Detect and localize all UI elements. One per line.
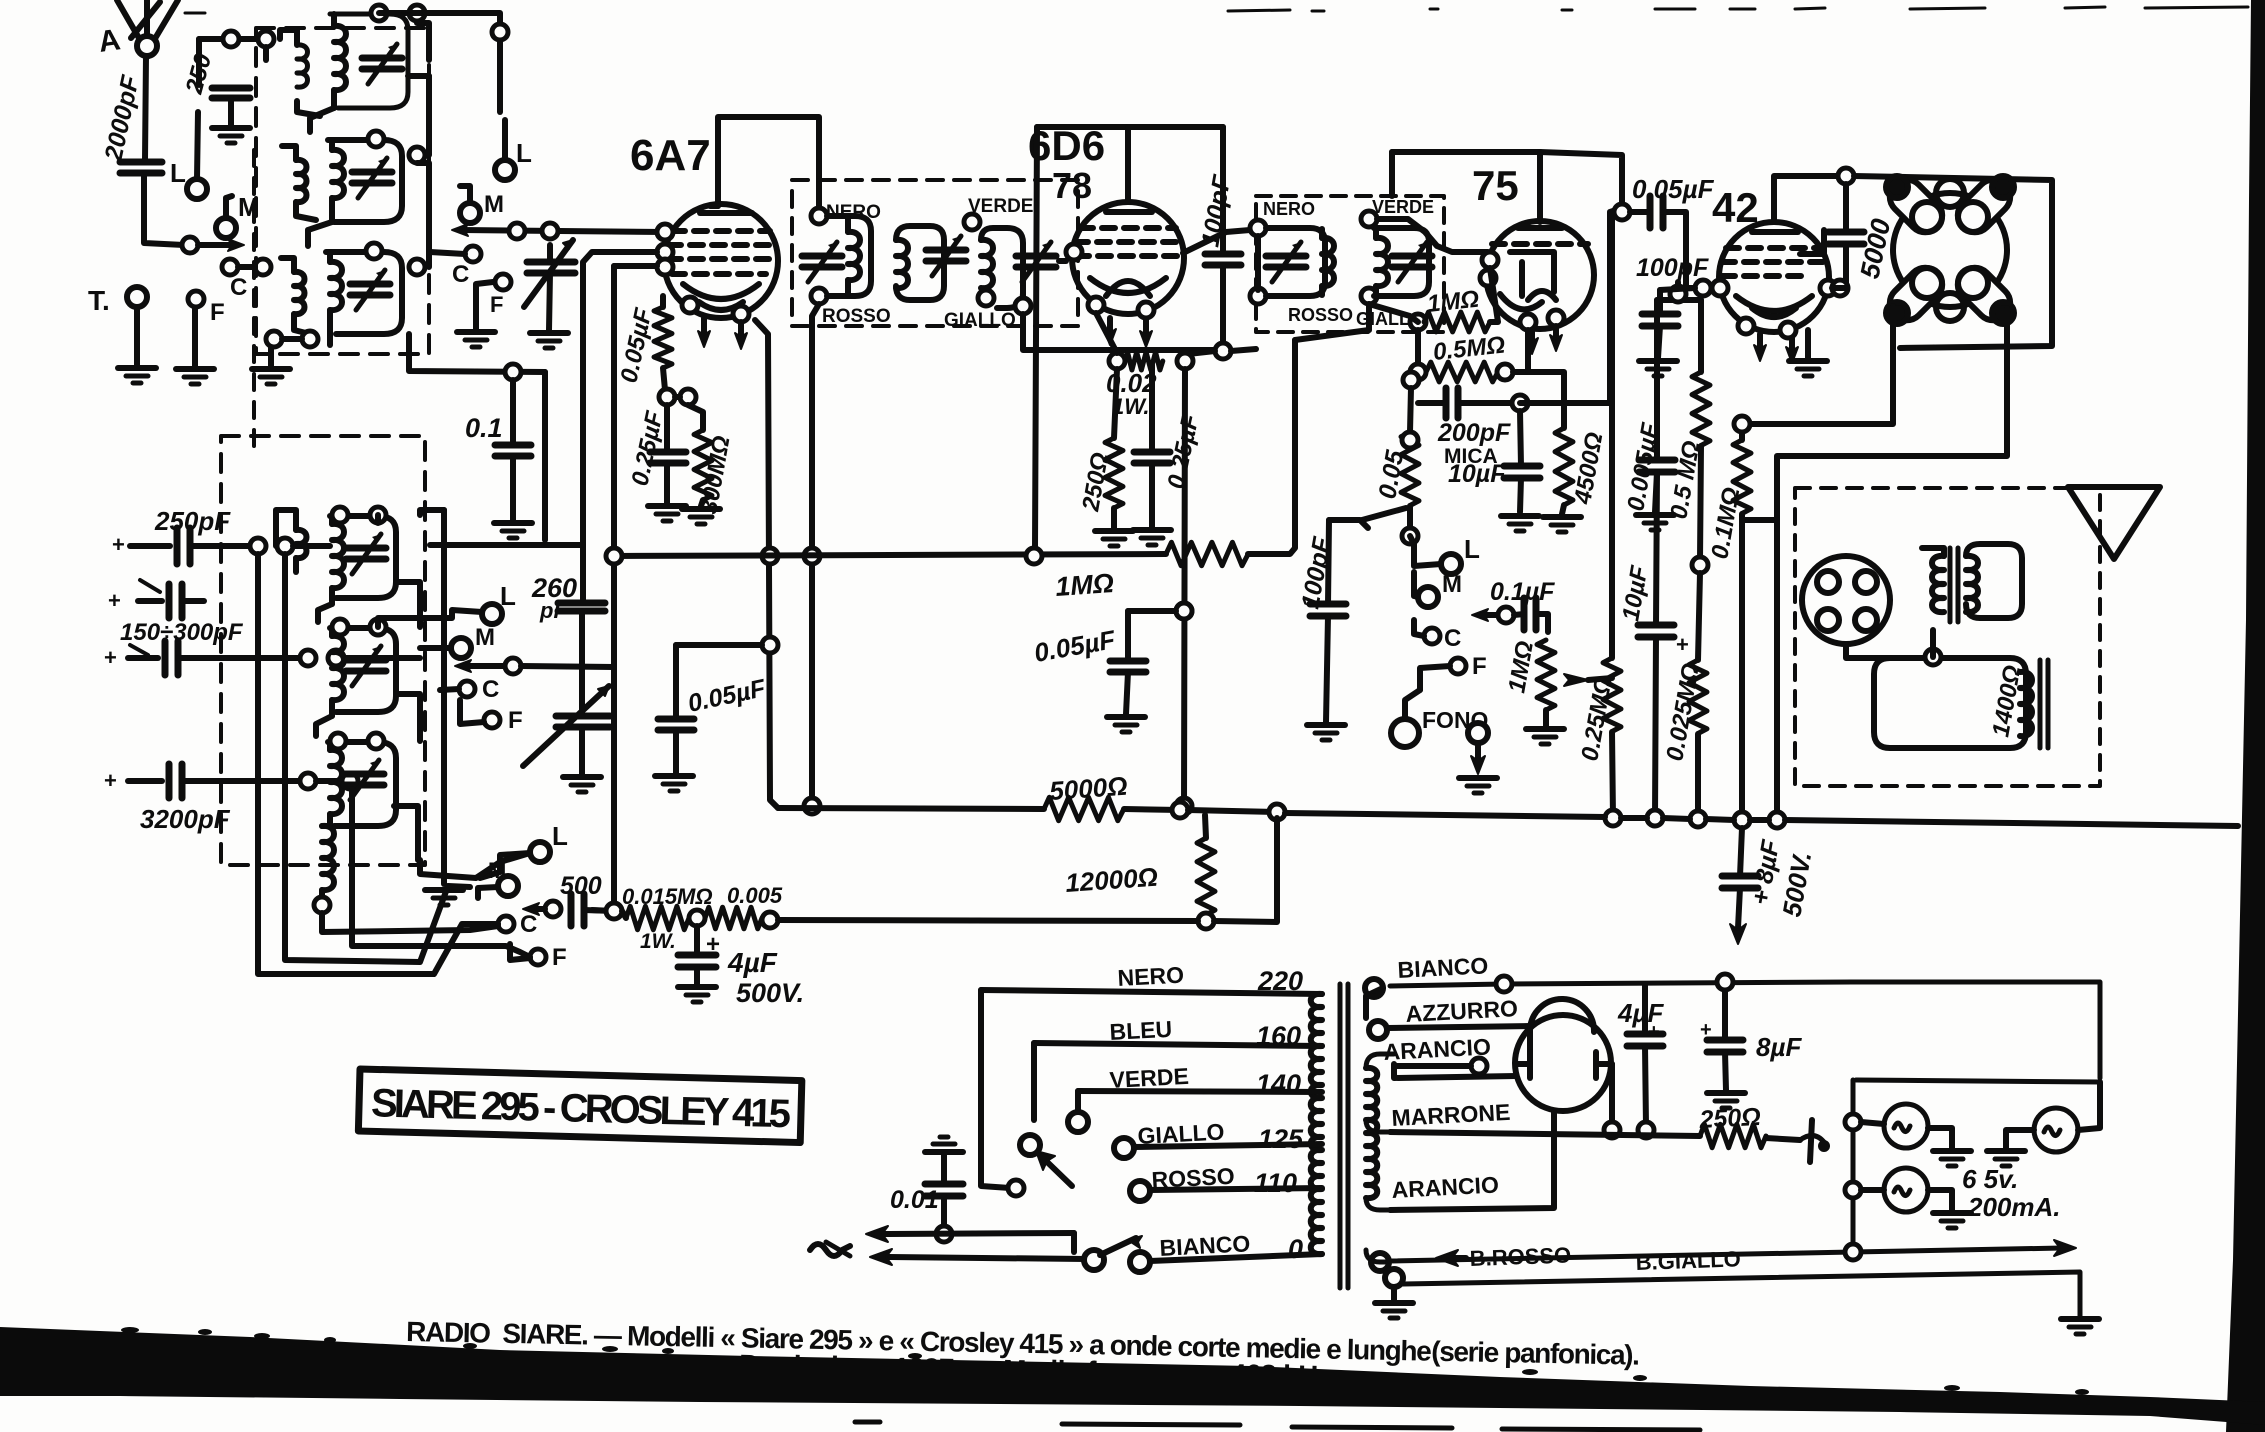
svg-text:B.ROSSO: B.ROSSO [1469,1242,1571,1271]
node [300,650,316,666]
secondary ground [1385,1269,1403,1287]
svg-text:ROSSO: ROSSO [1288,305,1353,325]
svg-text:F: F [490,292,503,317]
svg-text:L: L [516,138,532,168]
wire 42 top rail [1774,176,1846,222]
resistor 300MOhm with ground [688,405,703,430]
svg-text:C: C [1444,625,1461,652]
terminal F det [1450,658,1466,674]
ground [1501,516,1539,531]
ground [118,368,156,383]
node [1832,280,1848,296]
resistor 0.25MOhm column [1609,212,1615,658]
terminal F (right group) with ground [495,274,511,290]
terminal M (right group) [460,203,480,223]
svg-text:150÷300pF: 150÷300pF [120,619,244,646]
wire verde-giallo to 1M junction [1369,304,1418,322]
node pair below 6A7 [659,389,675,405]
wire 200pF node to 42 grid via 0.05 [1520,208,1622,403]
ground feed below box1 [268,347,274,366]
node [657,259,673,275]
svg-text:1W.: 1W. [640,930,676,953]
lamp 1 [1845,1114,1861,1130]
lobe SW [1883,261,1949,327]
node [1925,649,1941,665]
ground [678,987,716,1002]
svg-text:L: L [500,581,516,611]
ground [252,369,290,384]
node [1638,1122,1654,1138]
ground [682,509,720,524]
resistor 12000 Ohm [1197,838,1215,915]
node [1695,280,1711,296]
svg-text:L: L [552,821,568,851]
node [370,619,386,635]
capacitor 4uF 500V with ground [694,926,700,955]
ground [1107,717,1145,732]
svg-text:+: + [108,588,121,613]
terminal [1084,1250,1104,1270]
grid wire with left arrow into 6A7 [452,224,468,236]
wire to group 3 [308,222,332,246]
terminal FONO with label [1391,719,1419,747]
ground [1133,530,1171,545]
trimmer capacitor IF1 coupling [926,236,966,276]
wire top to box [199,36,258,42]
ground [530,333,568,348]
node [1769,812,1785,828]
wire IF2 giallo to AVC drop [1295,304,1369,340]
arrow left wire [455,660,471,672]
node [1512,395,1528,411]
terminal M [216,218,236,238]
primary winding [1311,994,1322,1254]
terminal [1114,1138,1134,1158]
wire M up [226,196,232,218]
svg-text:8µF: 8µF [1756,1032,1802,1062]
scan artifact: broken line below band [855,1422,1700,1430]
B+ rail with resistor 5000 Ohm [778,808,1044,809]
node [328,650,344,666]
svg-text:10µF: 10µF [1448,460,1506,488]
wire 6D6 top rail [1037,127,1128,202]
svg-text:6A7: 6A7 [630,131,711,180]
node [542,223,558,239]
ground [1789,361,1827,376]
wire 6D6 plate to IF2 [1183,230,1250,253]
node [680,389,696,405]
terminal [1068,1112,1088,1132]
mains wire 1 with arrow [936,1226,952,1242]
svg-text:1MΩ: 1MΩ [1426,286,1481,318]
ground [1526,729,1564,744]
antenna coil group 1 [330,5,425,108]
svg-text:F: F [552,944,567,971]
wire 6A7 top rail [718,117,819,208]
node [370,507,386,523]
lobe NW [1883,173,1949,239]
variable capacitor osc with ground [556,716,610,727]
oscillator coil group 2 [330,619,396,716]
resistor 0.5MOhm column [1698,300,1704,372]
terminal A [137,36,157,56]
long vertical right of box1 [497,26,503,112]
oscillator coil group 3 [328,733,396,826]
svg-text:1MΩ: 1MΩ [1054,568,1115,602]
wire [316,716,332,736]
node [606,548,622,564]
ground [1933,1213,1971,1228]
wire group1 to group2 [310,108,334,132]
node [682,297,698,313]
lobe NE [1951,173,2017,239]
node [266,331,282,347]
capacitor 0.05uF coupling [1630,209,1650,215]
node [1066,244,1082,260]
node [342,773,358,789]
node [1402,432,1418,448]
terminal L det [1441,554,1461,574]
svg-text:6 5v.: 6 5v. [1962,1164,2018,1194]
tube 6A7 [657,204,778,349]
capacitor 260pF column [580,545,586,603]
wire rectifier output to MARRONE [1609,1064,1615,1126]
wire [144,173,184,245]
wire 0.05 to 100pF junction [1362,508,1406,520]
long wires from coil box bottom to lower terminals [322,913,498,932]
node [689,910,705,926]
svg-text:T.: T. [88,285,110,316]
node [332,619,348,635]
svg-text:GIALLO: GIALLO [944,310,1016,331]
capacitor 0.25uF with ground [664,405,670,452]
wire grid3 column [614,263,657,269]
node [409,147,425,163]
bottom junctions of box1 [302,331,318,347]
resistor 0.005 [705,907,762,929]
svg-text:NERO: NERO [1263,199,1315,219]
wire IF1 rosso down [812,304,819,806]
capacitor 2000pF [120,162,162,173]
terminal M det [1418,587,1438,607]
ground [1543,517,1581,532]
capacitor 250 with ground [196,39,202,85]
node [314,897,330,913]
node [1845,1244,1861,1260]
lamp 2 [2034,1108,2078,1152]
primary coil 3 [281,258,310,334]
screen feed vertical [1184,369,1185,806]
wire top of 0.5M and 0.005 columns [1657,297,1701,303]
terminal [498,876,518,896]
node [1172,802,1188,818]
node [1520,314,1536,330]
terminal [1130,1252,1150,1272]
cathode drop wire V1 [755,320,778,808]
svg-text:B.GIALLO: B.GIALLO [1635,1246,1741,1275]
node [505,658,521,674]
bottom rail [592,910,614,911]
right side verticals of box1 [426,76,432,155]
node right top [492,24,508,40]
terminal C osc [459,681,475,697]
ground [212,128,250,143]
node [1269,804,1285,820]
node [1471,1058,1487,1074]
wire 75 top rail [1392,149,1540,155]
terminal L osc [482,604,502,624]
svg-text:C: C [230,274,247,301]
node [1015,298,1031,314]
capacitor 200pF MICA [1418,400,1446,406]
wire group1-group2 [318,604,332,622]
IF1 primary coil [811,208,827,224]
resistor 0.02 1W cathode [1109,353,1125,369]
svg-text:NERO: NERO [826,202,881,223]
long AVC vertical [1035,127,1037,548]
svg-text:M: M [1442,571,1462,598]
node [1177,353,1193,369]
resistor 4500 Ohm with ground [1528,372,1564,428]
node [505,364,521,380]
field connector symbol [1810,1120,1812,1162]
wire arrow right [198,242,236,248]
ground [1307,725,1345,740]
node [223,31,239,47]
ground [1987,1151,2025,1166]
node [733,306,749,322]
node [1734,416,1750,432]
node [657,244,673,260]
svg-text:A: A [96,23,122,59]
svg-text:0.005: 0.005 [727,883,783,908]
terminal L (right group) [495,160,515,180]
svg-text:0.1: 0.1 [465,413,503,443]
svg-text:0.015MΩ: 0.015MΩ [622,884,713,909]
capacitor 0.25uF with ground [1149,364,1155,452]
node [1605,810,1621,826]
left dashed vertical inner [252,150,256,452]
wire IF2 nero down (from 6D6 plate) [1255,236,1261,290]
center vertical ground line [420,510,444,515]
node [182,237,198,253]
ground [655,776,693,791]
node [250,538,266,554]
resistor 0.1MOhm column [1739,428,1745,440]
ground [563,777,601,792]
voice coil 1400 Ohm [1874,658,2048,748]
node [409,5,425,21]
svg-text:C: C [452,261,469,288]
svg-text:F: F [508,707,523,734]
node [804,798,820,814]
capacitor 0.1 column [409,334,545,372]
node [277,538,293,554]
svg-text:500V.: 500V. [736,978,804,1008]
node [258,31,274,47]
node [509,223,525,239]
node [1497,364,1513,380]
node [1604,1122,1620,1138]
wire IF1 to 6D6 grid [1059,258,1066,264]
ground [1933,1151,1971,1166]
dashed box IF1 [792,180,1078,326]
node [300,773,316,789]
scan artifact: band edge speckles [121,1327,2089,1395]
svg-text:75: 75 [1472,162,1519,209]
feedback coil small [296,530,307,558]
svg-text:BIANCO: BIANCO [1397,952,1489,983]
wire IF2 verde to 75 grid [1377,219,1488,252]
wire IF1 giallo down [1023,314,1215,350]
svg-text:ROSSO: ROSSO [822,306,891,327]
ground [457,332,495,347]
node [498,916,514,932]
node [657,224,673,240]
primary coil 1 [280,30,320,116]
capacitor 0.05uF mid with ground [1176,603,1192,619]
scan artifact: top edge dashed speckle [185,7,2248,13]
ground [1095,531,1133,546]
second fono terminal with ground arrow [1468,723,1488,743]
rectifier tube [1515,999,1612,1111]
node [530,949,546,965]
svg-text:0: 0 [1288,1234,1303,1264]
capacitor 5000 tone with label [1838,168,1854,184]
node [1498,607,1514,623]
node [368,733,384,749]
wires from coil box right to L/M terminals at right [379,13,500,26]
lower terminal group LMCF [530,842,550,862]
node [371,5,387,21]
variable capacitor 6A7 grid [524,240,575,348]
node [1176,603,1192,619]
svg-text:L: L [170,158,186,188]
dashed box IF2 [1256,196,1444,332]
node [1088,297,1104,313]
AVC rail with resistor 1MOhm [614,554,1166,556]
node [1361,288,1377,304]
node [1008,1180,1024,1196]
svg-text:0.05µF: 0.05µF [1632,174,1715,204]
pins with arrows [701,318,707,338]
scan artifact: bottom black smear band [0,1327,2265,1425]
antenna coil group 3 [326,243,425,334]
node [1138,302,1154,318]
IF1 secondary coil [964,214,980,230]
wire mains left branch [981,990,1010,1188]
heater return wire [1403,1272,2080,1316]
wire 500 cap row [545,901,561,917]
speaker socket 4 pin [1802,556,1890,644]
wire B.ROSSO B.GIALLO [1366,1250,1386,1262]
tube 6D6 [1066,202,1184,347]
mains squiggle symbol [810,1244,850,1256]
dashed box oscillator coils [221,436,425,865]
node [978,290,994,306]
svg-text:L: L [1464,534,1480,564]
node [1614,204,1630,220]
svg-text:+: + [104,645,117,670]
terminal C det [1424,628,1440,644]
node [332,507,348,523]
node [1176,798,1192,814]
node [330,733,346,749]
svg-text:M: M [484,191,504,218]
wires socket to voice coil [1846,644,1890,658]
ground [1636,515,1674,530]
svg-text:200mA.: 200mA. [1967,1192,2061,1222]
ground [1707,1093,1745,1108]
svg-text:125: 125 [1258,1124,1304,1154]
node [1482,252,1498,268]
svg-text:VERDE: VERDE [1372,197,1434,217]
node [762,637,778,653]
svg-text:+: + [104,768,117,793]
IF2 secondary [1361,211,1377,227]
core [1338,984,1343,1288]
node [1820,280,1836,296]
node [1712,280,1728,296]
svg-text:3200pF: 3200pF [140,804,231,834]
svg-text:78: 78 [1052,165,1092,206]
ground [1639,361,1677,376]
capacitor 0.05uF (screen) with ground [676,642,762,648]
node [606,903,622,919]
node [1692,557,1708,573]
resistor 0.025MOhm column [1698,573,1700,660]
wire osc grid to tube [583,252,657,545]
ground [425,890,463,905]
IF2 primary [1250,220,1266,236]
wire L up [197,112,198,179]
terminal C pair [222,259,238,275]
lobe SE [1951,261,2017,327]
terminal M osc [451,638,471,658]
node [762,548,778,564]
ground [494,523,532,538]
svg-text:200pF: 200pF [1437,419,1511,447]
svg-text:+: + [112,532,125,557]
node [366,243,382,259]
ground [1459,778,1497,793]
terminal F with ground [188,291,204,307]
wires from oscillator to terminals LMCF (upper) [378,610,482,627]
svg-text:0.01: 0.01 [890,1186,939,1214]
node [1670,286,1686,302]
svg-text:M: M [475,624,495,651]
capacitor 10uF electrolytic [1656,472,1657,625]
node [1496,976,1512,992]
svg-text:BLEU: BLEU [1109,1016,1173,1045]
tube 42 [1712,222,1836,376]
padder capacitor mid [138,598,162,604]
node [1198,913,1214,929]
dashed box antenna coils [256,28,429,354]
node [1690,811,1706,827]
resistor 250 Ohm with ground [1114,369,1117,438]
ground [176,369,214,384]
svg-text:100pF: 100pF [1636,254,1709,282]
resistor 0.015MOhm 1W [626,906,689,929]
ground [1375,1303,1413,1318]
speaker horn triangle [2068,487,2160,559]
node [1717,974,1733,990]
node [368,131,384,147]
node [1548,310,1564,326]
lamp 3 [1845,1182,1861,1198]
node [804,548,820,564]
